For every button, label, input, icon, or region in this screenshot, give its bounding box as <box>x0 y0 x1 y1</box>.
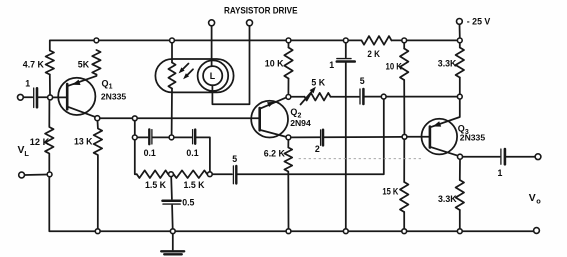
capacitor C7 5 <box>359 89 361 104</box>
node rail-5K <box>94 38 99 43</box>
svg-text:0.1: 0.1 <box>144 148 156 158</box>
wire input terminal to cap <box>23 96 32 98</box>
node rail-10KR <box>402 38 407 43</box>
svg-text:2: 2 <box>315 144 320 154</box>
node rail-3.3KB <box>457 229 462 234</box>
node Q1 base <box>48 95 53 100</box>
svg-text:Q: Q <box>290 107 297 117</box>
wire cap to base node <box>39 96 48 98</box>
svg-text:1.5 K: 1.5 K <box>145 180 167 190</box>
resistor R11 1.5K left <box>137 170 168 178</box>
node Q1 emitter <box>95 116 100 121</box>
wire drive terminal left to lamp <box>211 26 213 66</box>
svg-text:13 K: 13 K <box>74 136 93 146</box>
node twin-T B2 <box>169 135 174 140</box>
wire bottom rail <box>49 177 533 231</box>
node rail-3.3K <box>457 38 462 43</box>
transistor Q1 2N335 <box>58 75 96 118</box>
resistor R6 3.3K top <box>456 48 464 78</box>
ground <box>161 234 184 255</box>
node VL-12K <box>47 172 52 177</box>
terminal drive left <box>209 20 215 26</box>
lamp L inner <box>203 66 222 85</box>
resistor R13 15K <box>400 182 408 212</box>
wire 4.7K bottom to input node <box>49 75 51 95</box>
wire Q3 base node to base <box>407 136 430 138</box>
capacitor C6 1 (rail bypass) with vertical lead to ground <box>345 43 347 58</box>
svg-text:1: 1 <box>109 84 113 91</box>
node feedback top <box>381 94 386 99</box>
terminal output top <box>535 154 541 160</box>
node Q3 base <box>402 134 407 139</box>
node twin-T C1 <box>169 172 174 177</box>
wire output cap to terminal <box>506 156 535 158</box>
node rail-6.2K <box>286 229 291 234</box>
scan artifact dotted line <box>299 158 421 160</box>
capacitor C5 5 <box>232 166 234 184</box>
svg-text:5 K: 5 K <box>311 77 325 87</box>
wire 5 cap to feedback node <box>365 96 382 98</box>
wire center node down to 0.5 cap <box>170 177 173 199</box>
light arrow 2 <box>186 69 193 76</box>
node rail-photocell <box>170 38 175 43</box>
capacitor C1 1 (input) <box>33 88 35 108</box>
wire row B right corner down <box>196 137 210 171</box>
wire 3.3K to Q3 collector node <box>459 78 461 95</box>
node Q3 collector <box>457 94 462 99</box>
svg-text:5: 5 <box>232 154 237 164</box>
svg-text:1: 1 <box>25 78 30 88</box>
wire rail to photoresistor <box>171 43 173 63</box>
svg-text:1.5 K: 1.5 K <box>184 180 206 190</box>
wire rail to 3.3K top <box>459 43 461 48</box>
resistor R12 1.5K right <box>174 170 208 178</box>
node rail-C6 <box>343 38 348 43</box>
junction and terminal circles <box>18 19 541 234</box>
resistor R7 2K (in top rail) <box>362 36 392 45</box>
wire 10K right top lead <box>403 43 405 49</box>
wire to center node <box>167 173 170 175</box>
capacitor C3 0.1 right <box>192 130 194 144</box>
terminal -25V <box>457 19 463 25</box>
svg-text:o: o <box>536 196 541 205</box>
wire Q1 emitter row <box>100 117 132 119</box>
node twin-T B1 <box>132 135 137 140</box>
wire Q2 collector node to rheostat <box>291 96 305 98</box>
wire Q3 base node down to 15K <box>403 139 405 182</box>
resistor R5 10K left <box>284 48 292 79</box>
svg-text:L: L <box>210 71 216 81</box>
node rail-15K <box>402 229 407 234</box>
capacitor C8 2 <box>320 130 322 145</box>
resistor R14 3.3K bottom <box>456 180 464 210</box>
wire 5 cap to feedback corner <box>238 99 384 174</box>
svg-text:- 25 V: - 25 V <box>467 17 491 27</box>
node rail-13K <box>95 229 100 234</box>
svg-text:2 K: 2 K <box>367 49 380 59</box>
node Q2 collector <box>286 95 291 100</box>
resistor R2 5K <box>92 50 100 75</box>
resistor R4 13K <box>94 121 102 229</box>
node Q3 emitter <box>458 154 463 159</box>
svg-text:6.2 K: 6.2 K <box>264 148 286 158</box>
node rail-10KL <box>286 38 291 43</box>
svg-text:5K: 5K <box>78 59 90 69</box>
resistor R8 10K right <box>400 49 408 81</box>
wire 10K right to Q3 base node <box>403 80 405 134</box>
terminal VL <box>19 172 25 178</box>
svg-text:RAYSISTOR DRIVE: RAYSISTOR DRIVE <box>224 5 298 16</box>
node Q2 emitter <box>286 135 291 140</box>
svg-text:0.5: 0.5 <box>182 197 194 207</box>
capacitor C9 1 (output) <box>500 149 502 164</box>
svg-text:L: L <box>24 149 29 158</box>
svg-text:10 K: 10 K <box>386 61 403 71</box>
svg-text:1: 1 <box>329 60 334 70</box>
node rail-ground <box>170 229 175 234</box>
terminal input <box>18 94 24 100</box>
light arrow 1 <box>182 64 189 71</box>
svg-text:5: 5 <box>360 76 365 86</box>
photoresistor (raysistor cell) <box>168 63 175 89</box>
transistor Q3 2N335 <box>422 99 460 156</box>
wire -25V terminal lead <box>459 24 461 38</box>
svg-text:1: 1 <box>498 168 503 178</box>
wire top rail right segment <box>392 39 460 41</box>
svg-text:Q: Q <box>102 78 109 88</box>
wire right twin-T node to 5 cap <box>212 173 232 175</box>
wire twin-T left vertical upper <box>134 121 136 135</box>
svg-text:3.3K: 3.3K <box>438 194 457 204</box>
wire feedback node to Q3 collector node <box>386 96 457 98</box>
svg-text:0.1: 0.1 <box>186 148 198 158</box>
wire lamp bottom to drive terminal right <box>212 26 249 105</box>
wire rheostat to 5 cap <box>331 96 359 98</box>
wire 15K to rail <box>403 212 405 229</box>
svg-text:15 K: 15 K <box>382 187 399 197</box>
node rail-C6-bottom <box>343 229 348 234</box>
svg-text:12 K: 12 K <box>30 137 50 147</box>
wire top rail left segment <box>50 40 362 50</box>
svg-text:V: V <box>529 193 536 204</box>
wire 10K left to Q2 collector node <box>287 79 289 95</box>
node twin-T C2 <box>207 172 212 177</box>
wire 10K left top lead <box>288 43 290 48</box>
capacitor C4 0.5 <box>163 199 181 202</box>
svg-text:2N94: 2N94 <box>290 118 311 128</box>
wire Q2 emitter row to 2 cap <box>291 136 320 138</box>
svg-text:10 K: 10 K <box>265 58 284 68</box>
terminal output bottom <box>534 228 540 234</box>
wire VL terminal to 12K node <box>25 174 47 177</box>
wire 3.3K bottom to rail <box>459 210 461 229</box>
wire 2 cap to Q3 base node <box>324 136 402 138</box>
wire row B middle <box>153 136 169 138</box>
svg-text:4.7 K: 4.7 K <box>23 59 45 69</box>
wire Q3 emitter node down to 3.3K bottom <box>459 159 461 180</box>
wire twin-T row B left <box>137 136 148 138</box>
resistor R1 4.7K <box>46 51 54 75</box>
resistor R3 12K <box>45 100 53 172</box>
resistor R10 6.2K (with leads crossing feedback wire) <box>284 140 292 229</box>
transistor Q2 2N94 <box>251 98 288 138</box>
wire Q3 emitter to output cap <box>463 156 500 158</box>
node twin-T A <box>132 116 137 121</box>
svg-text:3.3K: 3.3K <box>438 59 457 69</box>
svg-text:2N335: 2N335 <box>460 133 486 143</box>
wire 0.5 cap to ground rail <box>171 205 174 229</box>
wire photoresistor down to twin-T node <box>171 89 173 136</box>
lamp L outer <box>198 60 229 91</box>
raysistor envelope <box>155 59 233 92</box>
rheostat arrow <box>301 92 312 105</box>
wire twin-T left vertical lower + 1.5K left lead <box>135 140 137 174</box>
terminal drive right <box>247 20 253 26</box>
rheostat R9 5K <box>305 93 331 101</box>
svg-text:2N335: 2N335 <box>101 92 127 102</box>
capacitor C2 0.1 left <box>148 129 150 144</box>
wire base node to Q1 base <box>53 96 68 98</box>
